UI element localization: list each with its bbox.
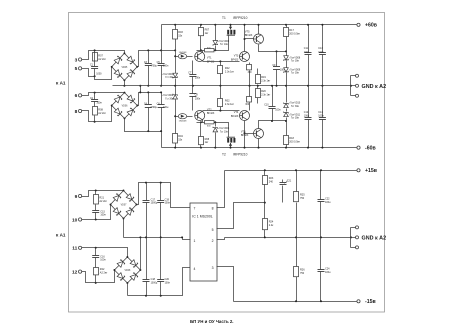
svg-text:300: 300 <box>248 72 253 74</box>
resistor R07 gate <box>199 25 210 51</box>
resistor R21 snubber <box>94 191 108 211</box>
transistor VT6 <box>241 129 264 139</box>
svg-text:Т1: Т1 <box>222 16 226 20</box>
svg-text:С13: С13 <box>318 47 323 50</box>
svg-text:≈7св VD04: ≈7св VD04 <box>218 127 230 130</box>
transistor VT3 <box>231 52 250 62</box>
node VT3 rail <box>244 24 246 26</box>
resistor R25 <box>294 171 306 238</box>
wire node to bridge4 left <box>96 271 115 283</box>
mosfet T2 IRFP9210 <box>227 137 236 147</box>
wire bridge VD06 - output <box>125 119 162 132</box>
svg-text:3: 3 <box>212 266 214 270</box>
wire pin1 to GND <box>181 236 190 239</box>
svg-text:А2 2вт: А2 2вт <box>99 200 107 203</box>
svg-text:100µ: 100µ <box>304 51 310 54</box>
node raw+ at column <box>174 49 176 51</box>
wire pin5 feedback <box>217 203 265 229</box>
resistor R07 snubber <box>93 53 107 62</box>
svg-text:≈7св VD01: ≈7св VD01 <box>162 73 174 76</box>
capacitor C13 <box>318 25 326 86</box>
wire to -60 terminal <box>354 147 357 149</box>
wire pin2 to GND rail <box>217 238 225 240</box>
node C5 junction <box>160 49 162 51</box>
transistor VT2 <box>195 108 215 120</box>
capacitor C12 <box>304 86 312 148</box>
node snubber4 top <box>95 247 97 249</box>
svg-text:≈7св VD11: ≈7св VD11 <box>289 113 301 116</box>
zener VD10 <box>284 102 301 121</box>
resistor 300 VT3 <box>247 63 253 86</box>
node R25 gnd <box>295 236 297 238</box>
wire mid-tie <box>140 86 142 93</box>
svg-text:BF423: BF423 <box>241 134 249 137</box>
svg-text:8: 8 <box>75 109 78 115</box>
svg-text:100н: 100н <box>318 115 324 118</box>
wire terminal 3 to bridge VD05 top <box>82 51 125 60</box>
zener VD03 <box>213 25 230 51</box>
node C13 gnd <box>321 85 323 87</box>
node C13 top <box>321 24 323 26</box>
svg-text:GND к A2: GND к A2 <box>362 84 387 90</box>
svg-text:С21: С21 <box>287 180 292 183</box>
pin 3 <box>212 266 214 270</box>
svg-text:1000µ: 1000µ <box>151 281 158 284</box>
label GND к A2 <box>362 84 387 90</box>
terminal +60v <box>357 23 377 29</box>
node C6 mid <box>160 130 162 132</box>
svg-text:С11: С11 <box>304 47 309 50</box>
svg-text:300: 300 <box>207 126 211 128</box>
svg-text:к А1: к А1 <box>56 233 66 238</box>
terminal GND upper <box>356 74 359 77</box>
wire VT2 collector to gate line <box>202 120 204 123</box>
node C19 top <box>160 182 162 184</box>
node C4 top <box>147 91 149 93</box>
node VT5 rail <box>258 24 260 26</box>
resistor R08 gate <box>199 123 210 148</box>
node C22 top <box>320 169 322 171</box>
svg-text:-15в: -15в <box>365 299 376 305</box>
capacitor C2 snubber <box>90 97 102 105</box>
node zener col tap lower <box>285 120 287 122</box>
wire bridge3 - down <box>123 219 125 238</box>
wire VT5 collector <box>258 25 260 35</box>
capacitor C17 <box>143 183 158 238</box>
svg-text:100п: 100п <box>195 76 201 79</box>
svg-text:С14: С14 <box>318 111 323 114</box>
label к А1 (upper) <box>56 80 66 85</box>
node diode tap lower <box>174 115 176 117</box>
svg-text:1000µ: 1000µ <box>151 202 158 205</box>
terminal -15v <box>357 299 376 305</box>
svg-text:С8: С8 <box>195 94 199 97</box>
capacitor C10 <box>264 86 281 121</box>
resistor R23 <box>263 171 274 203</box>
capacitor C4 <box>144 93 158 132</box>
node C22 gnd <box>320 236 322 238</box>
resistor 300 VT4 <box>245 86 251 111</box>
resistor R20 <box>256 86 272 104</box>
svg-text:GND к A2: GND к A2 <box>362 236 387 242</box>
op-amp regulator IC1 MS200L <box>190 203 217 281</box>
capacitor C7 <box>188 61 201 86</box>
wire bridge VD05 - output <box>124 81 126 86</box>
svg-text:9: 9 <box>75 194 78 200</box>
svg-text:≈7св VD02: ≈7св VD02 <box>162 94 174 97</box>
diode bridge VD05 <box>111 52 138 81</box>
capacitor C20 <box>157 238 170 296</box>
capacitor C3 <box>144 51 158 86</box>
svg-text:15к: 15к <box>178 138 183 141</box>
svg-text:200 0.5вт: 200 0.5вт <box>289 32 301 35</box>
resistor R08 snubber <box>93 107 107 116</box>
capacitor C14 <box>318 86 326 148</box>
node VD03 top <box>214 24 216 26</box>
resistor R19 <box>256 69 272 86</box>
capacitor C5 <box>157 25 169 86</box>
svg-text:100µ: 100µ <box>304 115 310 118</box>
terminal 11 <box>72 246 81 252</box>
svg-text:11: 11 <box>72 246 77 252</box>
svg-text:3: 3 <box>75 57 78 63</box>
svg-text:А2 2вт: А2 2вт <box>100 271 108 274</box>
svg-text:100н: 100н <box>163 106 169 109</box>
svg-text:100н: 100н <box>325 201 331 204</box>
node GND bracket lower <box>350 236 352 238</box>
zener VD01 <box>162 73 178 79</box>
wire GND rail left <box>124 237 183 239</box>
zener VD04 <box>213 123 230 148</box>
wire bridge VD06 + output <box>138 93 162 106</box>
transistor VT5 <box>245 31 264 44</box>
wire pin8 to +15 rail <box>217 171 225 208</box>
svg-text:IRFP9210: IRFP9210 <box>233 152 248 156</box>
pin 4 <box>194 267 196 271</box>
GND bracket wires lower <box>351 228 356 248</box>
terminal 9 <box>75 194 82 200</box>
svg-text:Гст 10в: Гст 10в <box>220 131 229 133</box>
wire raw- rail <box>128 268 191 296</box>
diode bridge VD07 <box>110 190 138 220</box>
node C11 top <box>307 24 309 26</box>
resistor R26 <box>294 238 306 302</box>
diode VD 1N4148 lower <box>176 114 193 123</box>
svg-text:BF423: BF423 <box>231 58 239 61</box>
label T1 IRFP9210 <box>222 16 248 20</box>
svg-text:100н: 100н <box>100 214 106 217</box>
wire GND rail right <box>225 237 351 239</box>
terminal GND2 lower <box>356 246 359 249</box>
svg-text:2: 2 <box>212 239 214 243</box>
node R25 top <box>295 169 297 171</box>
svg-text:VT4: VT4 <box>234 111 239 114</box>
node R23 R24 junction <box>264 202 266 204</box>
wire terminal 12 to node <box>82 272 96 283</box>
svg-text:100н: 100н <box>163 64 169 67</box>
zener VD09 <box>284 65 301 86</box>
node C11 gnd <box>307 85 309 87</box>
svg-text:VD06: VD06 <box>122 106 128 108</box>
svg-text:BF423: BF423 <box>207 60 215 63</box>
wire terminal 5 to node <box>82 69 95 77</box>
svg-text:VD07: VD07 <box>121 205 127 207</box>
pin 1 <box>194 239 196 243</box>
wire gate line lower <box>197 123 229 138</box>
terminal 10 <box>72 217 82 223</box>
wire snubber1 <box>94 51 96 77</box>
svg-text:≈7св VD10: ≈7св VD10 <box>289 102 301 105</box>
node VT6 base line <box>244 132 246 134</box>
wire VT6 emitter line <box>259 121 287 129</box>
svg-text:к А1: к А1 <box>56 80 66 85</box>
wire VT6 base line <box>245 133 254 135</box>
node R18 bottom <box>285 147 287 149</box>
svg-text:2.3к 1вт: 2.3к 1вт <box>225 103 235 106</box>
wire VT5 base line <box>245 38 254 40</box>
wire VT5 emitter line <box>259 45 287 52</box>
node GND bracket <box>350 85 352 87</box>
svg-text:4700µ: 4700µ <box>150 106 157 109</box>
node R08 bottom <box>200 147 202 149</box>
node R02b bottom <box>219 110 221 112</box>
svg-text:BF423: BF423 <box>231 115 239 118</box>
svg-text:VT6: VT6 <box>241 130 246 133</box>
node zeners gnd <box>285 85 287 87</box>
svg-text:15к: 15к <box>178 34 183 37</box>
node col175 gnd <box>174 85 176 87</box>
wire VT4 collector down <box>244 121 246 148</box>
svg-text:100н: 100н <box>165 202 171 205</box>
node R23 top <box>264 169 266 171</box>
wire top rail +60 <box>162 24 354 26</box>
svg-text:5: 5 <box>75 66 78 72</box>
label T2 IRFP9210 <box>222 152 248 156</box>
svg-text:+60в: +60в <box>365 23 377 29</box>
pin 7 <box>194 207 196 211</box>
resistor 300 gate upper <box>205 47 215 52</box>
svg-text:7: 7 <box>194 207 196 211</box>
svg-text:Гст 30в: Гст 30в <box>291 61 300 63</box>
wire bridge3 + to raw rail <box>137 183 191 208</box>
node C12 bottom <box>307 147 309 149</box>
capacitor C19 <box>157 183 170 238</box>
capacitor C24 <box>318 238 332 302</box>
svg-text:IC 1 MS200L: IC 1 MS200L <box>192 215 212 219</box>
wire column 175 lower <box>175 86 177 148</box>
terminal 6 <box>75 93 82 99</box>
node VT6 rail <box>258 147 260 149</box>
svg-text:VT1: VT1 <box>207 57 212 60</box>
resistor R04 <box>173 134 184 144</box>
svg-text:С12: С12 <box>304 111 309 114</box>
resistor 300 gate lower <box>205 121 215 128</box>
svg-text:2.3к 1вт: 2.3к 1вт <box>261 80 271 83</box>
zener VD11 <box>284 86 301 120</box>
svg-text:1N4148: 1N4148 <box>179 52 187 54</box>
node R17 top <box>285 24 287 26</box>
resistor R24 <box>263 203 275 238</box>
transistor VT4 <box>231 111 250 121</box>
node bridge1 minus <box>123 85 125 87</box>
capacitor C18 <box>143 238 158 296</box>
svg-text:200 0.5вт: 200 0.5вт <box>289 140 301 143</box>
wire terminal 10 to bridge3 left <box>82 205 111 220</box>
svg-text:БП УН и ОУ Часть 2.: БП УН и ОУ Часть 2. <box>190 319 234 324</box>
svg-text:2.3к 1вт: 2.3к 1вт <box>225 70 235 73</box>
node snubber1 bottom <box>94 75 96 77</box>
svg-text:100н: 100н <box>165 281 171 284</box>
svg-text:1N4148: 1N4148 <box>179 120 187 122</box>
svg-text:100н: 100н <box>100 259 106 262</box>
capacitor C11 <box>304 25 312 86</box>
node mid-tie bottom <box>139 91 141 93</box>
svg-text:BF423: BF423 <box>207 112 215 115</box>
capacitor C9 <box>272 52 286 86</box>
node R07 top <box>200 24 202 26</box>
zener VD02 <box>162 94 178 101</box>
svg-text:Гст 30в: Гст 30в <box>291 73 300 75</box>
wire bottom rail -60 <box>162 147 354 149</box>
svg-text:1вт: 1вт <box>205 141 210 144</box>
node VT4 rail <box>244 147 246 149</box>
node R19 gnd <box>257 85 259 87</box>
terminal GND lower <box>356 94 359 97</box>
transistor VT1 <box>195 52 215 64</box>
svg-text:5: 5 <box>212 228 214 232</box>
svg-text:VD05: VD05 <box>122 67 128 69</box>
svg-text:10: 10 <box>72 217 78 223</box>
node VD04 bottom <box>214 147 216 149</box>
svg-text:1000: 1000 <box>96 73 102 76</box>
wire terminal 8 to node <box>82 111 95 122</box>
svg-text:1: 1 <box>194 239 196 243</box>
terminal GND mid <box>356 84 359 87</box>
wire terminal 9 to bridge3 top <box>82 191 124 197</box>
svg-text:4: 4 <box>194 267 196 271</box>
node VD04 top <box>214 121 216 123</box>
wire node to bridge VD06 left <box>95 106 112 122</box>
resistor R02 <box>218 62 235 86</box>
node C14 bottom <box>321 147 323 149</box>
node C6 top <box>160 91 162 93</box>
wire bridge4 + up to GND rail <box>140 238 142 271</box>
svg-text:Гст 30в: Гст 30в <box>291 106 300 108</box>
terminal GND2 mid <box>356 236 359 239</box>
node C3 top <box>147 49 149 51</box>
node T2 drain <box>230 147 232 149</box>
wire bridge4 - down <box>127 283 129 296</box>
capacitor C16 snubber <box>92 248 106 268</box>
node C7 gnd <box>192 85 194 87</box>
wire gate line upper <box>197 36 229 51</box>
svg-text:IRFP9210: IRFP9210 <box>233 16 248 20</box>
svg-text:А2 2вт: А2 2вт <box>98 58 106 61</box>
capacitor C6 <box>157 93 169 148</box>
svg-text:≈7св VD09: ≈7св VD09 <box>289 68 301 71</box>
wire VT1 emitter line <box>203 61 240 63</box>
resistor R02b <box>218 86 235 111</box>
node C18 bottom <box>145 295 147 297</box>
node snubber3 bottom <box>95 219 97 221</box>
diode VD 1N4148 upper <box>176 52 193 59</box>
svg-text:Гст 30в: Гст 30в <box>165 77 174 79</box>
svg-text:≈7св VD08: ≈7св VD08 <box>289 56 301 59</box>
capacitor C15 snubber <box>92 210 106 219</box>
node gate line lower <box>200 121 202 123</box>
svg-text:100н: 100н <box>325 271 331 274</box>
pin 8 <box>212 207 214 211</box>
svg-text:2.2к: 2.2к <box>269 224 274 227</box>
label к А1 (lower) <box>56 233 66 238</box>
svg-text:100п: 100п <box>275 109 281 112</box>
svg-text:С7: С7 <box>188 71 192 74</box>
node VT5 base line <box>244 38 246 40</box>
svg-text:Гст 30в: Гст 30в <box>291 118 300 120</box>
zener VD08 <box>284 52 301 65</box>
svg-text:BF423: BF423 <box>245 34 253 37</box>
capacitor C1 snubber <box>90 64 102 76</box>
node R02 gnd <box>219 85 221 87</box>
node C9 top <box>276 50 278 52</box>
node R26 bottom <box>295 300 297 302</box>
svg-text:750: 750 <box>300 272 305 275</box>
terminal GND2 upper <box>356 226 359 229</box>
wire to +60 terminal <box>354 24 357 26</box>
wire pin3 to -15 rail <box>217 267 234 302</box>
wire GND rail <box>113 85 351 87</box>
svg-text:750: 750 <box>300 197 305 200</box>
node zener col tap <box>285 50 287 52</box>
node snubber2 top <box>94 92 96 94</box>
node C10 gnd <box>271 85 273 87</box>
node col175 bottom <box>174 147 176 149</box>
terminal -60v <box>357 146 376 152</box>
svg-text:2.3к 1вт: 2.3к 1вт <box>261 93 271 96</box>
wire node to bridge VD05 left <box>95 67 112 80</box>
node C20 bottom <box>160 295 162 297</box>
node T1 drain <box>230 24 232 26</box>
svg-text:6: 6 <box>75 93 78 99</box>
node snubber2 bottom <box>94 121 96 123</box>
wire bridge VD05 + output <box>138 51 176 67</box>
mosfet T1 IRFP9210 <box>227 25 236 35</box>
node C17 bottom <box>145 236 147 238</box>
terminal 5 <box>75 66 82 72</box>
node R300 gnd <box>249 85 251 87</box>
diode bridge VD08 lower <box>113 256 141 284</box>
svg-text:С10: С10 <box>264 103 269 106</box>
node gate line left <box>200 49 202 51</box>
node C5 bottom <box>160 85 162 87</box>
svg-text:VT3: VT3 <box>234 55 239 58</box>
wire terminal 11 to bridge4 top <box>82 248 128 257</box>
svg-text:8: 8 <box>212 207 214 211</box>
node C3 bottom <box>147 85 149 87</box>
border frame <box>69 13 385 313</box>
resistor R22 snubber <box>94 268 109 283</box>
svg-text:100н: 100н <box>96 102 102 105</box>
svg-text:-60в: -60в <box>365 146 376 152</box>
title БП УН и ОУ Часть 2 <box>190 319 234 324</box>
resistor R18 <box>284 121 301 148</box>
svg-text:Гст 10в: Гст 10в <box>220 44 229 46</box>
wire +15 rail <box>225 170 357 172</box>
node C9 gnd <box>276 85 278 87</box>
GND bracket wires <box>351 76 356 96</box>
node R24 gnd <box>264 236 266 238</box>
wire VT2 emitter line <box>203 110 240 112</box>
